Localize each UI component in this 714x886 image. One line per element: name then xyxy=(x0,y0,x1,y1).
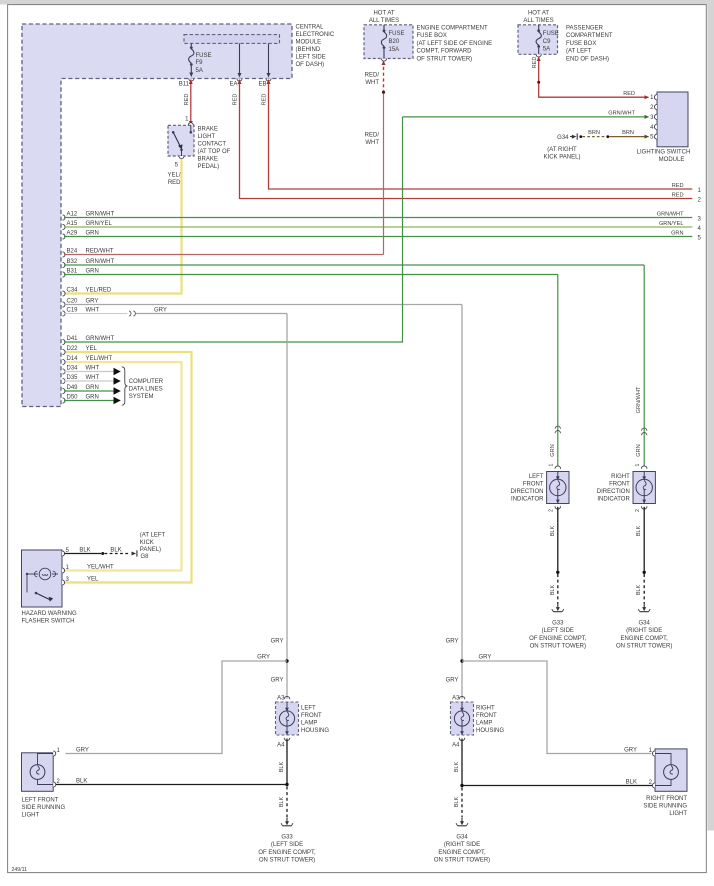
wire RED/WHT dashed from engine fuse box xyxy=(382,61,386,91)
svg-text:B11: B11 xyxy=(179,82,190,88)
CEM pin D14 connector and label xyxy=(63,359,66,364)
lighting switch module pin 5 connector xyxy=(654,134,657,139)
svg-text:INDICATOR: INDICATOR xyxy=(597,497,630,503)
svg-text:LIGHT: LIGHT xyxy=(669,811,687,817)
svg-text:GRY: GRY xyxy=(271,639,284,645)
svg-text:ENGINE COMPT,: ENGINE COMPT, xyxy=(621,636,669,642)
wire GRN/YEL from CEM pin A15 xyxy=(63,224,66,229)
svg-text:KICK PANEL): KICK PANEL) xyxy=(544,154,581,160)
splice node on hazard ground wire xyxy=(101,552,104,555)
engine fuse box location label xyxy=(417,26,493,63)
passenger fuse box location label xyxy=(566,26,613,63)
svg-text:BLK: BLK xyxy=(636,525,642,536)
svg-text:GRN/WHT: GRN/WHT xyxy=(608,111,635,117)
svg-text:F9: F9 xyxy=(196,60,204,66)
svg-text:HOUSING: HOUSING xyxy=(476,728,504,734)
wire BLK from lamp housing A4 xyxy=(461,739,463,786)
passenger compartment fuse box xyxy=(518,25,558,55)
svg-text:GRY: GRY xyxy=(76,748,89,754)
svg-text:WHT: WHT xyxy=(86,375,100,381)
left front lamp housing pin A3 connector xyxy=(284,696,290,699)
svg-text:GRY: GRY xyxy=(271,678,284,684)
right running light internal wiring xyxy=(655,754,678,786)
svg-text:FLASHER SWITCH: FLASHER SWITCH xyxy=(22,619,75,625)
svg-text:DATA LINES: DATA LINES xyxy=(129,387,163,393)
hazard switch label xyxy=(22,611,77,625)
svg-text:HOT AT: HOT AT xyxy=(373,11,394,17)
svg-text:WHT: WHT xyxy=(365,80,379,86)
svg-text:EB: EB xyxy=(258,82,266,88)
left front direction indicator connector A xyxy=(555,466,561,469)
svg-text:GRN/YEL: GRN/YEL xyxy=(659,221,684,227)
svg-text:RED: RED xyxy=(672,183,684,189)
svg-text:DIRECTION: DIRECTION xyxy=(597,489,630,495)
CEM pin C34 connector and label xyxy=(63,291,66,296)
svg-text:BLK: BLK xyxy=(626,780,637,786)
svg-text:GRY: GRY xyxy=(624,748,637,754)
svg-text:GRN/YEL: GRN/YEL xyxy=(86,221,113,227)
svg-text:(LEFT SIDE: (LEFT SIDE xyxy=(542,628,574,634)
central electronic module U1 body xyxy=(22,24,292,407)
right front lamp housing body xyxy=(451,702,474,735)
wire GRN/WHT from CEM pin B32 xyxy=(63,262,66,267)
svg-text:ON STRUT TOWER): ON STRUT TOWER) xyxy=(434,858,490,864)
svg-text:BRAKE: BRAKE xyxy=(198,157,218,163)
left running light pin 2 connector xyxy=(53,782,56,787)
svg-text:(RIGHT SIDE: (RIGHT SIDE xyxy=(626,628,662,634)
right front lamp housing pin A4 connector xyxy=(459,738,465,741)
left front direction indicator bulb xyxy=(550,479,566,495)
wire RED/WHT from CEM pin B24 xyxy=(63,252,66,257)
right front direction indicator label xyxy=(597,474,631,503)
inline connector on C19 wire xyxy=(129,311,131,316)
svg-text:OF STRUT TOWER): OF STRUT TOWER) xyxy=(417,56,473,62)
svg-text:ALL TIMES: ALL TIMES xyxy=(523,18,553,24)
junction node xyxy=(460,784,463,787)
svg-text:INDICATOR: INDICATOR xyxy=(511,497,544,503)
svg-text:ENGINE COMPARTMENT: ENGINE COMPARTMENT xyxy=(417,26,488,32)
inline connector on left indicator feed xyxy=(555,426,560,429)
hazard switch pin 3 connector xyxy=(62,580,65,585)
left front direction indicator body xyxy=(547,472,569,504)
svg-text:BRN: BRN xyxy=(622,130,634,136)
svg-text:HAZARD WARNING: HAZARD WARNING xyxy=(22,611,77,617)
svg-text:RIGHT: RIGHT xyxy=(476,706,495,712)
svg-text:YEL/RED: YEL/RED xyxy=(86,288,112,294)
wire BLK dashed to ground G8 xyxy=(105,553,130,555)
svg-text:LEFT SIDE: LEFT SIDE xyxy=(296,55,326,61)
right front lamp housing bulb xyxy=(454,711,469,726)
svg-text:2: 2 xyxy=(635,509,641,512)
svg-text:ELECTRONIC: ELECTRONIC xyxy=(296,32,335,38)
brake light contact switch S1 xyxy=(168,123,194,159)
left front direction indicator label xyxy=(511,474,545,503)
svg-text:B32: B32 xyxy=(67,259,78,265)
ground G33 xyxy=(281,818,293,826)
svg-text:LAMP: LAMP xyxy=(476,721,492,727)
svg-text:GRN/WHT: GRN/WHT xyxy=(86,259,115,265)
svg-text:BLK: BLK xyxy=(76,779,87,785)
hazard switch pin 1 connector xyxy=(62,568,65,573)
wire BLK from left front direction indicator pin 2 xyxy=(557,507,559,571)
svg-text:LIGHT: LIGHT xyxy=(198,134,216,140)
wire YEL/RED brake contact to CEM C34 xyxy=(64,159,182,294)
svg-text:PANEL): PANEL) xyxy=(140,547,161,553)
lighting switch module U2 xyxy=(657,92,688,147)
svg-text:GRY: GRY xyxy=(257,655,270,661)
fuse F9 label xyxy=(196,53,212,74)
left front lamp housing bulb xyxy=(279,711,294,726)
wire GRN from CEM pin D50 to computer data lines xyxy=(63,398,66,403)
wire GRN from CEM pin D49 to computer data lines xyxy=(63,388,66,393)
svg-text:15A: 15A xyxy=(389,47,400,53)
svg-text:GRY: GRY xyxy=(479,655,492,661)
svg-text:FRONT: FRONT xyxy=(609,482,630,488)
svg-text:D35: D35 xyxy=(67,375,79,381)
svg-text:CONTACT: CONTACT xyxy=(198,142,227,148)
svg-text:OF DASH): OF DASH) xyxy=(296,62,325,68)
pin EA drop wire inside CEM xyxy=(237,43,242,81)
engine compartment fuse box xyxy=(364,25,413,59)
svg-text:G34: G34 xyxy=(639,621,651,627)
svg-text:G34: G34 xyxy=(456,835,468,841)
svg-text:RED/WHT: RED/WHT xyxy=(86,249,114,255)
svg-text:LIGHT: LIGHT xyxy=(22,813,40,819)
svg-text:RIGHT: RIGHT xyxy=(611,474,630,480)
svg-text:GRN/WHT: GRN/WHT xyxy=(86,336,115,342)
svg-text:YEL/WHT: YEL/WHT xyxy=(86,356,113,362)
right front direction indicator body xyxy=(633,472,655,504)
splice node on RED/WHT wire xyxy=(382,91,385,94)
svg-text:YEL/WHT: YEL/WHT xyxy=(87,564,114,570)
svg-text:BLK: BLK xyxy=(454,796,460,807)
svg-text:LEFT: LEFT xyxy=(301,706,316,712)
label RED/WHT upper xyxy=(365,73,380,87)
junction node right xyxy=(460,659,463,662)
svg-text:ON STRUT TOWER): ON STRUT TOWER) xyxy=(259,858,315,864)
svg-text:END OF DASH): END OF DASH) xyxy=(566,56,609,62)
svg-text:WHT: WHT xyxy=(86,308,100,314)
svg-text:RED/: RED/ xyxy=(365,133,380,139)
wire GRY from connector to left lamp feed xyxy=(136,313,288,315)
svg-text:LIGHTING SWITCH: LIGHTING SWITCH xyxy=(637,149,691,155)
svg-text:GRN: GRN xyxy=(671,231,683,237)
left front lamp housing body xyxy=(276,702,299,735)
wire BLK dashed to ground xyxy=(461,788,463,818)
svg-text:5A: 5A xyxy=(196,68,203,74)
wire BLK from lamp housing A4 xyxy=(286,739,288,785)
lighting switch module pin 3 connector xyxy=(654,114,657,119)
wire BLK from right front direction indicator pin 2 xyxy=(643,507,645,571)
hazard switch internal switch blade xyxy=(27,574,53,602)
svg-text:GRN: GRN xyxy=(636,444,642,456)
svg-text:HOUSING: HOUSING xyxy=(301,728,329,734)
CEM pin D22 connector and label xyxy=(63,349,66,354)
svg-text:GRY: GRY xyxy=(154,308,167,314)
svg-text:BLK: BLK xyxy=(79,547,90,553)
right front direction indicator connector A xyxy=(641,466,647,469)
wire BLK right running light to junction xyxy=(462,785,652,787)
wire WHT from CEM pin C19 xyxy=(63,311,66,316)
svg-text:D50: D50 xyxy=(67,395,79,401)
svg-text:FUSE: FUSE xyxy=(196,53,212,59)
svg-text:B31: B31 xyxy=(67,269,78,275)
fuse B20 label xyxy=(389,31,405,53)
wire GRY right feed down to right front lamp housing xyxy=(461,305,463,699)
svg-text:FUSE: FUSE xyxy=(389,31,405,37)
svg-text:A4: A4 xyxy=(277,743,285,749)
svg-text:FRONT: FRONT xyxy=(523,482,544,488)
wire RED EA down then right to edge (wire 2) xyxy=(240,80,693,199)
svg-text:C20: C20 xyxy=(67,299,79,305)
svg-text:D41: D41 xyxy=(67,336,79,342)
svg-text:D49: D49 xyxy=(67,385,79,391)
svg-text:ON STRUT TOWER): ON STRUT TOWER) xyxy=(530,644,586,650)
splice node xyxy=(643,571,646,574)
hazard switch pin numbers xyxy=(66,548,70,583)
svg-text:BLK: BLK xyxy=(454,761,460,772)
wire GRY branch to left front side running light xyxy=(66,661,288,754)
svg-text:(AT TOP OF: (AT TOP OF xyxy=(198,149,231,155)
svg-text:C9: C9 xyxy=(543,39,551,45)
svg-text:(BEHIND: (BEHIND xyxy=(296,47,321,53)
svg-text:G8: G8 xyxy=(141,554,150,560)
svg-text:BLK: BLK xyxy=(636,584,642,595)
wire GRN from CEM pin A29 xyxy=(63,234,66,239)
svg-text:A12: A12 xyxy=(67,212,78,218)
wire GRY left feed down to left front lamp housing xyxy=(286,314,288,699)
svg-text:BLK: BLK xyxy=(279,796,285,807)
wire BLK hazard pin 5 to splice xyxy=(65,553,102,555)
wire GRN/WHT from CEM pin D41 to lighting switch module pin 3 xyxy=(63,339,66,344)
hazard switch internal bulb xyxy=(26,568,58,580)
central electronic module label xyxy=(296,25,335,69)
svg-text:(AT RIGHT: (AT RIGHT xyxy=(547,147,577,153)
hot at all times label (engine fuse box) xyxy=(369,11,399,24)
right running light pin numbers xyxy=(649,748,653,786)
wire BRN dashed from ground G34 xyxy=(579,135,609,138)
svg-text:MODULE: MODULE xyxy=(296,40,322,46)
svg-text:GRN: GRN xyxy=(86,269,99,275)
svg-text:C34: C34 xyxy=(67,288,79,294)
computer data lines system label xyxy=(129,379,164,400)
wire WHT from CEM pin D34 to computer data lines xyxy=(63,369,66,374)
svg-text:KICK: KICK xyxy=(140,540,154,546)
svg-text:FUSE BOX: FUSE BOX xyxy=(417,33,447,39)
svg-text:RED: RED xyxy=(672,193,684,199)
label RED/WHT lower xyxy=(365,133,380,147)
svg-text:OF ENGINE COMPT,: OF ENGINE COMPT, xyxy=(258,850,316,856)
svg-text:WHT: WHT xyxy=(365,140,379,146)
svg-text:YEL: YEL xyxy=(87,576,99,582)
svg-text:RED/: RED/ xyxy=(365,73,380,79)
left front side running light L3 xyxy=(22,753,54,792)
svg-text:GRN: GRN xyxy=(86,231,99,237)
svg-text:BRAKE: BRAKE xyxy=(198,127,218,133)
right running light pin 1 connector xyxy=(652,751,655,756)
right gray margin strip xyxy=(707,5,714,831)
junction node xyxy=(285,783,288,786)
svg-text:GRN: GRN xyxy=(86,385,99,391)
central electronic module internal bus bar xyxy=(184,35,280,44)
fuse C9 5A xyxy=(536,25,541,57)
ground G34 at right kick panel xyxy=(570,133,577,139)
svg-text:1: 1 xyxy=(548,463,554,466)
svg-text:GRY: GRY xyxy=(446,678,459,684)
svg-text:GRN/WHT: GRN/WHT xyxy=(636,386,642,413)
svg-text:RED: RED xyxy=(262,94,268,106)
svg-text:GRN/WHT: GRN/WHT xyxy=(657,212,684,218)
wire GRN B31 row down to left front direction indicator xyxy=(557,275,559,467)
computer data lines brace xyxy=(122,367,128,405)
svg-text:PEDAL): PEDAL) xyxy=(198,164,220,170)
svg-text:GRY: GRY xyxy=(86,299,99,305)
pin labels B11 EA EB xyxy=(179,82,267,88)
svg-text:GRY: GRY xyxy=(446,639,459,645)
left running light pin 1 connector xyxy=(53,751,56,756)
pin B11 connector at CEM bottom edge xyxy=(189,79,194,82)
svg-text:D14: D14 xyxy=(67,356,79,362)
hazard switch pin 5 connector xyxy=(62,551,65,556)
svg-text:COMPT, FORWARD: COMPT, FORWARD xyxy=(417,49,473,55)
wire BLK left running light to junction xyxy=(56,784,287,786)
svg-text:EA: EA xyxy=(229,82,237,88)
fuse B20 15A xyxy=(381,25,386,61)
wire BRN solid to lighting switch pin 5 xyxy=(609,135,649,139)
svg-text:1: 1 xyxy=(635,463,641,466)
right front direction indicator connector B xyxy=(641,506,647,509)
wire GRN/WHT B32 row down to right front direction indicator xyxy=(643,265,645,467)
right running light pin 2 connector xyxy=(652,783,655,788)
svg-text:5A: 5A xyxy=(543,47,550,53)
svg-text:LAMP: LAMP xyxy=(301,721,317,727)
svg-text:249/11: 249/11 xyxy=(12,867,28,873)
svg-text:MODULE: MODULE xyxy=(659,157,685,163)
svg-text:(AT LEFT: (AT LEFT xyxy=(566,49,592,55)
ground G34 (right side engine compt) xyxy=(638,604,650,612)
label G8 and location xyxy=(140,533,166,560)
svg-text:2: 2 xyxy=(548,509,554,512)
left running light label xyxy=(22,798,66,819)
lighting switch module pin 1 connector xyxy=(654,95,657,100)
fuse F9 5A xyxy=(189,43,194,77)
left running light pin numbers xyxy=(57,748,61,785)
svg-text:B20: B20 xyxy=(389,39,400,45)
svg-text:BLK: BLK xyxy=(279,761,285,772)
splice node on RED wire xyxy=(537,81,540,84)
svg-text:LEFT: LEFT xyxy=(529,474,544,480)
top gray margin strip xyxy=(0,0,714,5)
svg-text:RED: RED xyxy=(184,94,190,106)
wire RED/WHT solid down to CEM B24 (vertical) xyxy=(383,94,385,255)
lighting switch module pin 4 connector xyxy=(654,124,657,129)
right edge labels wires 1 and 2 xyxy=(672,183,684,199)
ground G33 (left side engine compt) xyxy=(552,604,564,612)
wire GRY from CEM pin C20 xyxy=(63,302,66,307)
svg-text:ALL TIMES: ALL TIMES xyxy=(369,18,399,24)
svg-text:BRN: BRN xyxy=(588,130,600,136)
svg-text:G33: G33 xyxy=(552,621,564,627)
left running light internal wiring xyxy=(30,754,53,785)
wire YEL CEM D22 down to hazard switch pin 3 xyxy=(64,352,192,583)
svg-text:A15: A15 xyxy=(67,221,78,227)
svg-text:SIDE RUNNING: SIDE RUNNING xyxy=(643,804,687,810)
svg-text:RED: RED xyxy=(532,57,538,69)
svg-text:SYSTEM: SYSTEM xyxy=(129,394,154,400)
svg-text:COMPUTER: COMPUTER xyxy=(129,379,164,385)
brake light contact label xyxy=(198,127,231,171)
svg-text:PASSENGER: PASSENGER xyxy=(566,26,604,32)
left front lamp housing pin A4 connector xyxy=(284,738,290,741)
svg-text:ENGINE COMPT,: ENGINE COMPT, xyxy=(438,850,486,856)
svg-text:FRONT: FRONT xyxy=(476,713,497,719)
svg-text:G33: G33 xyxy=(281,835,293,841)
wire BLK dashed to ground xyxy=(286,787,288,818)
ground G34 xyxy=(456,818,468,826)
wire GRN from CEM pin B31 xyxy=(63,272,66,277)
svg-text:FUSE BOX: FUSE BOX xyxy=(566,41,596,47)
wire BLK dashed to ground xyxy=(557,574,559,604)
svg-text:FUSE: FUSE xyxy=(543,31,559,37)
svg-text:COMPARTMENT: COMPARTMENT xyxy=(566,33,613,39)
lighting switch module pin 2 connector xyxy=(654,104,657,109)
svg-text:(LEFT SIDE: (LEFT SIDE xyxy=(271,842,303,848)
ground G8 at left kick panel xyxy=(132,550,137,556)
hazard warning flasher switch S2 xyxy=(22,550,63,607)
svg-text:RED: RED xyxy=(168,180,181,186)
svg-text:CENTRAL: CENTRAL xyxy=(296,25,325,31)
wire RED EB down then right to edge (wire 1) xyxy=(269,80,693,190)
right front direction indicator bulb xyxy=(636,479,652,495)
right edge labels wires 3 4 5 xyxy=(657,212,684,237)
svg-text:(RIGHT SIDE: (RIGHT SIDE xyxy=(444,842,480,848)
label YEL/RED on brake wire xyxy=(167,173,181,187)
svg-text:GRN: GRN xyxy=(550,444,556,456)
svg-text:YEL/: YEL/ xyxy=(167,173,180,179)
svg-text:A29: A29 xyxy=(67,231,78,237)
lighting switch module label xyxy=(637,149,691,163)
svg-text:RED: RED xyxy=(623,91,635,97)
wire YEL/WHT CEM D14 down to hazard switch pin 1 xyxy=(64,362,182,571)
svg-text:RIGHT FRONT: RIGHT FRONT xyxy=(646,796,687,802)
fuse C9 label xyxy=(543,31,559,53)
right front lamp housing label xyxy=(476,706,504,735)
svg-text:FRONT: FRONT xyxy=(301,713,322,719)
right front side running light L4 xyxy=(655,749,687,791)
svg-text:SIDE RUNNING: SIDE RUNNING xyxy=(22,805,66,811)
wire RED B11 to brake light contact xyxy=(189,80,193,126)
hot at all times label (passenger fuse box) xyxy=(523,11,553,24)
wire GRY branch to right front side running light xyxy=(462,661,651,754)
svg-text:HOT AT: HOT AT xyxy=(528,11,549,17)
right front lamp housing pin A3 connector xyxy=(459,696,465,699)
svg-text:(AT LEFT SIDE OF ENGINE: (AT LEFT SIDE OF ENGINE xyxy=(417,41,493,47)
svg-text:BLK: BLK xyxy=(110,547,121,553)
wire GRN/WHT from CEM pin A12 xyxy=(63,215,66,220)
svg-text:D22: D22 xyxy=(67,346,79,352)
svg-text:YEL: YEL xyxy=(86,346,98,352)
svg-text:GRN: GRN xyxy=(86,395,99,401)
left front direction indicator connector B xyxy=(555,506,561,509)
svg-text:LEFT FRONT: LEFT FRONT xyxy=(22,798,59,804)
wire GRN/WHT into lighting switch pin 3 xyxy=(403,116,649,118)
svg-text:WHT: WHT xyxy=(86,366,100,372)
svg-text:GRN/WHT: GRN/WHT xyxy=(86,212,115,218)
right running light label xyxy=(643,796,687,817)
G34 kick panel location label xyxy=(544,147,581,161)
svg-text:DIRECTION: DIRECTION xyxy=(511,489,544,495)
svg-text:RED: RED xyxy=(233,94,239,106)
